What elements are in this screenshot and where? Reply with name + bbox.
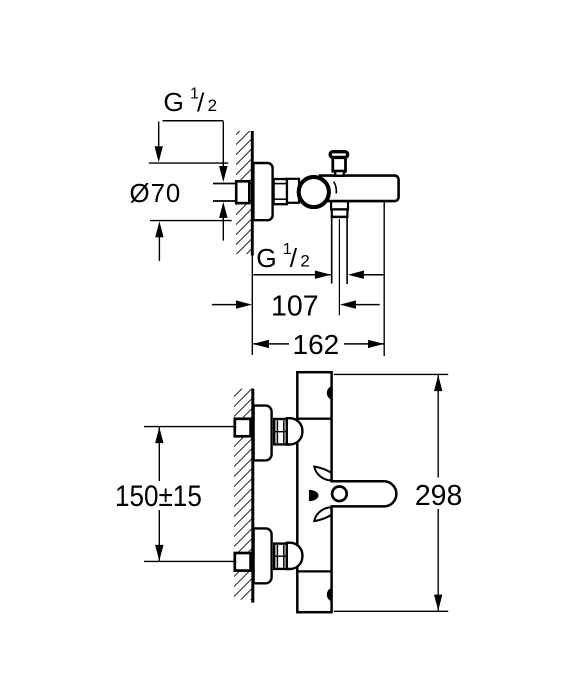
svg-text:/: /	[290, 243, 298, 273]
svg-text:Ø70: Ø70	[130, 180, 182, 208]
svg-text:G: G	[256, 243, 276, 273]
svg-text:G: G	[163, 87, 183, 117]
svg-text:/: /	[197, 88, 205, 118]
svg-text:298: 298	[415, 480, 463, 512]
svg-text:107: 107	[271, 291, 319, 323]
svg-text:2: 2	[300, 252, 309, 271]
svg-text:150±15: 150±15	[115, 480, 202, 513]
svg-text:2: 2	[208, 96, 217, 115]
svg-text:162: 162	[293, 329, 340, 360]
